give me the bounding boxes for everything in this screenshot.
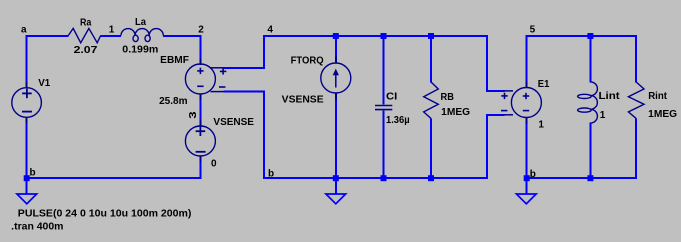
wire: RB bottom: [430, 119, 432, 180]
svg-text:Rint: Rint: [648, 91, 667, 102]
wire: node 4 column up: [263, 35, 265, 69]
wire: Rint top: [635, 35, 637, 83]
svg-text:Ra: Ra: [80, 18, 92, 29]
wire: EBMF + control to node 4 column: [224, 67, 265, 69]
svg-text:3: 3: [188, 111, 199, 119]
junction node 4 at CI: [381, 33, 387, 39]
resistor RB: [424, 82, 439, 119]
junction node 5 at Lint: [587, 33, 593, 39]
junction node b at E1: [524, 175, 530, 181]
svg-text:1MEG: 1MEG: [648, 109, 677, 120]
F source FTORQ: [321, 63, 351, 93]
E source EBMF: [185, 64, 226, 94]
wire: La to node 2 corner: [163, 35, 202, 37]
svg-text:1: 1: [109, 25, 115, 36]
voltage source V1: [12, 88, 42, 118]
junction node 4 at RB: [428, 33, 434, 39]
wire: E1 + control horizontal: [486, 90, 505, 92]
wire: Rint bottom: [635, 119, 637, 180]
junction node b at RB: [428, 175, 434, 181]
wire: node 4 rail down to E1 + control: [486, 35, 488, 92]
wire: Lint bottom: [589, 123, 591, 180]
wire: V1 to node b junction: [26, 118, 28, 180]
wire: ground stub middle: [335, 179, 337, 194]
svg-text:VSENSE: VSENSE: [213, 117, 254, 128]
svg-text:1.36µ: 1.36µ: [386, 115, 410, 126]
ground middle: [326, 194, 346, 204]
svg-text:VSENSE: VSENSE: [282, 95, 324, 106]
svg-text:PULSE(0 24 0 10u 10u 100m 200m: PULSE(0 24 0 10u 10u 100m 200m): [18, 209, 192, 220]
svg-text:b: b: [268, 169, 274, 180]
svg-text:RB: RB: [441, 92, 454, 103]
wire: CI top: [382, 35, 384, 105]
svg-text:1: 1: [538, 120, 544, 131]
ground left: [17, 194, 37, 204]
wire: EBMF - control to b column: [224, 91, 265, 93]
svg-text:V1: V1: [38, 78, 50, 89]
svg-text:5: 5: [530, 25, 536, 36]
wire: node a down to V1: [26, 35, 28, 88]
wire: E1 - control horizontal: [486, 114, 505, 116]
wire: bottom rail node b middle: [263, 177, 487, 179]
capacitor CI: [375, 106, 392, 110]
E source E1: [501, 88, 541, 118]
wire: top rail node 4: [263, 35, 488, 37]
wire: E1 bottom: [526, 118, 528, 180]
wire: b column down: [263, 91, 265, 180]
svg-text:.tran 400m: .tran 400m: [11, 222, 63, 233]
svg-text:25.8m: 25.8m: [159, 96, 188, 107]
svg-text:b: b: [530, 169, 536, 180]
svg-text:Lint: Lint: [599, 91, 621, 102]
inductor Lint: [578, 82, 598, 123]
svg-text:E1: E1: [538, 79, 550, 90]
wire: CI bottom: [382, 110, 384, 179]
wire: bottom rail right block: [526, 177, 638, 179]
junction node b left: [24, 175, 30, 181]
svg-text:4: 4: [267, 25, 273, 36]
inductor La: [121, 29, 163, 42]
svg-text:0: 0: [211, 159, 217, 170]
wire: bottom rail left block: [26, 177, 202, 179]
resistor Rint: [628, 82, 644, 119]
svg-text:1MEG: 1MEG: [441, 107, 470, 118]
svg-text:FTORQ: FTORQ: [291, 55, 324, 66]
svg-text:EBMF: EBMF: [160, 55, 189, 66]
wire: FTORQ top: [335, 35, 337, 63]
junction node b at CI: [381, 175, 387, 181]
junction node b at Lint: [587, 175, 593, 181]
svg-text:0.199m: 0.199m: [122, 44, 158, 55]
wire: VSENSE to bottom rail: [200, 156, 202, 179]
junction node 4 at FTORQ: [333, 33, 339, 39]
wire: ground stub left: [26, 179, 28, 194]
svg-text:CI: CI: [386, 91, 397, 102]
voltage source VSENSE: [185, 126, 215, 156]
wire: top rail node 5: [526, 35, 638, 37]
ground right: [516, 194, 536, 204]
wire: b rail up to E1 - control: [486, 114, 488, 179]
junction node b at FTORQ: [333, 175, 339, 181]
wire pin stubs (navy) on source circles: [27, 57, 527, 162]
wire: FTORQ bottom: [335, 93, 337, 179]
wire: EBMF to VSENSE (node 3): [200, 94, 202, 126]
wire: node 2 down to EBMF: [200, 35, 202, 64]
svg-text:b: b: [30, 168, 36, 179]
wire: Lint top: [589, 35, 591, 82]
svg-text:1: 1: [600, 110, 606, 121]
wire: node a top rail to Ra: [26, 35, 69, 37]
wire: ground stub right: [526, 179, 528, 194]
wire: E1 top: [526, 35, 528, 88]
wire: Ra to La (node 1): [101, 35, 122, 37]
svg-text:2.07: 2.07: [74, 45, 98, 56]
svg-text:2: 2: [198, 25, 204, 36]
resistor Ra: [68, 28, 100, 42]
svg-text:La: La: [135, 17, 146, 28]
svg-text:a: a: [21, 25, 27, 36]
wire: RB top: [430, 35, 432, 83]
